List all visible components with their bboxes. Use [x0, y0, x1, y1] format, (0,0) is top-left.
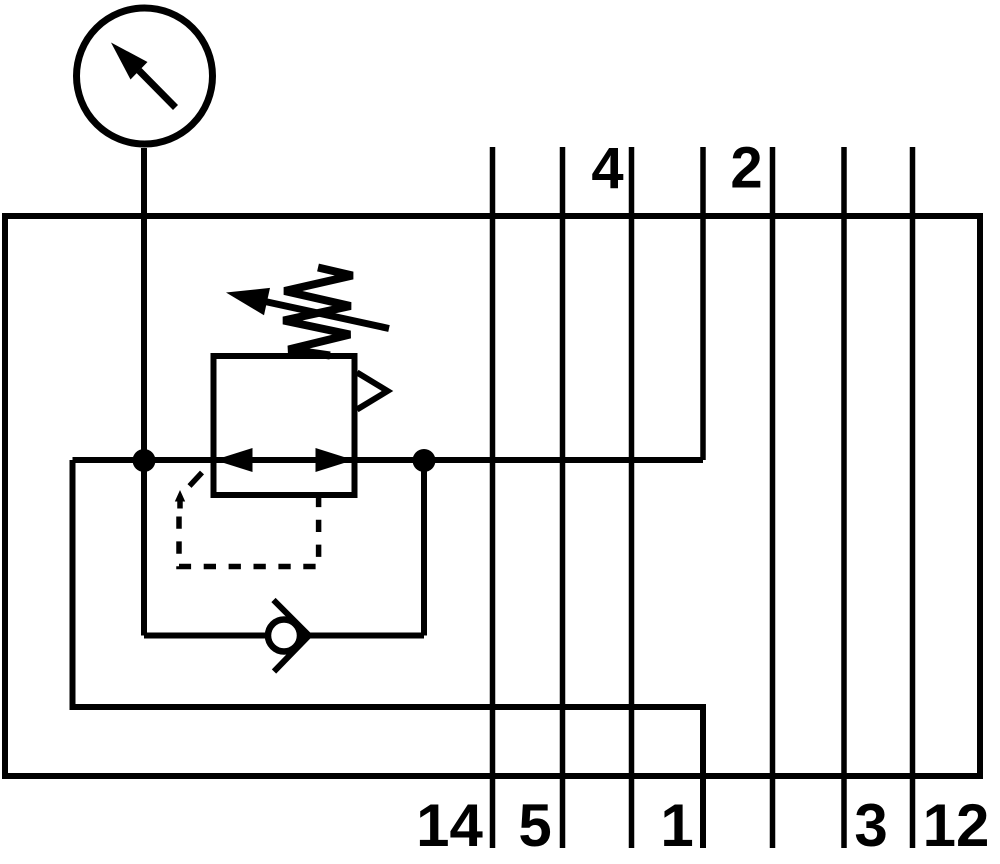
pilot line (dashed) — [175, 473, 319, 567]
port line 4 — [629, 147, 635, 848]
spring — [284, 268, 353, 356]
check valve — [268, 600, 309, 672]
relief vent chevron — [357, 373, 388, 410]
svg-text:1: 1 — [660, 792, 693, 859]
port line 1 (upper segment) — [700, 147, 706, 460]
node junction right — [413, 449, 436, 472]
svg-text:3: 3 — [854, 792, 887, 859]
port line 5 — [560, 147, 566, 848]
adjustment arrow — [226, 288, 389, 329]
pressure regulator body — [214, 356, 355, 495]
wire: check valve branch — [144, 633, 424, 639]
wire: main regulated line — [73, 457, 704, 463]
wire: bypass loop (left-down-right-down) — [73, 460, 704, 848]
node junction left — [133, 449, 156, 472]
wire: inner loop right — [421, 460, 427, 636]
wire: gauge drop / inner loop left — [141, 148, 147, 636]
regulator flow arrow left — [215, 448, 253, 472]
pressure gauge — [77, 8, 213, 144]
svg-text:4: 4 — [591, 136, 623, 201]
regulator flow arrow right — [316, 448, 354, 472]
svg-text:14: 14 — [416, 792, 483, 859]
port line 12 — [910, 147, 916, 848]
svg-text:2: 2 — [730, 136, 762, 201]
svg-text:12: 12 — [923, 792, 990, 859]
svg-text:5: 5 — [518, 792, 551, 859]
port line 14 — [490, 147, 496, 848]
port line 2 — [770, 147, 776, 848]
port line 3 — [841, 147, 847, 848]
enclosure border — [5, 216, 980, 776]
